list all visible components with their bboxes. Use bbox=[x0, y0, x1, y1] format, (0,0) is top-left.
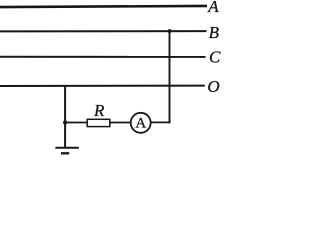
svg-text:A: A bbox=[207, 0, 219, 16]
wire vertical from B down to ammeter branch bbox=[169, 31, 171, 123]
svg-text:O: O bbox=[207, 77, 219, 96]
ammeter A1 bbox=[131, 113, 151, 133]
svg-text:C: C bbox=[209, 48, 221, 67]
wire line O (neutral bus) bbox=[0, 85, 205, 87]
wire from right vertical to ammeter bbox=[152, 121, 171, 123]
svg-text:A: A bbox=[135, 116, 146, 132]
wire vertical from line O down to ground bbox=[64, 85, 66, 148]
wire line C (phase C bus) bbox=[0, 56, 206, 58]
wire line B (phase B bus) bbox=[0, 30, 207, 32]
junction dot on left vertical bbox=[63, 120, 67, 124]
junction dot on line B bbox=[168, 29, 172, 33]
wire from resistor to ammeter bbox=[110, 122, 131, 124]
svg-text:R: R bbox=[93, 101, 105, 120]
wire from left junction to resistor bbox=[64, 122, 87, 124]
svg-text:B: B bbox=[209, 23, 220, 42]
wire line A (phase A bus) bbox=[0, 6, 207, 7]
ground bar 1 bbox=[55, 147, 79, 149]
resistor R bbox=[87, 119, 110, 126]
ground bar 2 bbox=[61, 152, 69, 154]
